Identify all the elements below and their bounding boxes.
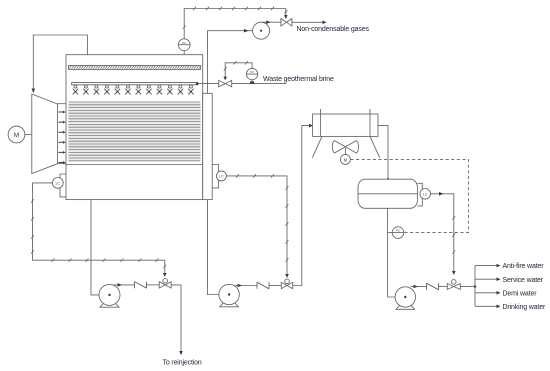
level gauge bracket drum [417, 183, 422, 206]
control valve V1 (NCG) [281, 19, 287, 26]
fan housing (trapezoid) [32, 94, 58, 174]
level gauge bracket left [60, 174, 66, 197]
svg-text:LC: LC [56, 181, 61, 185]
svg-text:Waste geothermal brine: Waste geothermal brine [263, 76, 334, 83]
instrument PC2 [246, 68, 257, 79]
signal: LC1 to V4 [226, 174, 288, 278]
instrument LC2 [52, 178, 63, 189]
signal: PC2 to V2 [224, 61, 252, 77]
strip flow arrows [59, 111, 66, 164]
compressor C1 [253, 22, 270, 39]
tube bundle [69, 102, 201, 161]
signal: PC1 to V1 [183, 7, 288, 39]
signal: LC3 to V5 [431, 192, 456, 275]
pump P1 [99, 284, 120, 305]
svg-text:Demi water: Demi water [503, 290, 538, 297]
motor M1 [8, 126, 25, 143]
control valve V5 [452, 280, 457, 285]
P2 discharge line [235, 285, 258, 287]
dashed signal: PC3 to M2 [350, 159, 468, 232]
signal: LC2 to V3 [31, 183, 167, 277]
svg-text:Non-condensable gases: Non-condensable gases [297, 26, 370, 33]
instrument LC1 [216, 171, 226, 181]
control valve V3 [163, 279, 168, 284]
pipe break symbol [427, 283, 439, 290]
drum outlet to pump P3 [388, 208, 396, 297]
svg-text:LC: LC [219, 174, 224, 178]
pipe break symbol [257, 282, 269, 289]
compressor discharge [262, 21, 281, 23]
svg-text:To reinjection: To reinjection [163, 360, 202, 367]
cooler legs [312, 136, 322, 157]
fan motor M2 [344, 148, 346, 154]
duct flow arrow [32, 89, 36, 94]
fan blades [332, 141, 358, 153]
motor shaft wire [25, 134, 32, 136]
branch: demi water [475, 292, 498, 294]
control valve V2 (brine) [219, 80, 226, 86]
cooler outlet to drum [378, 126, 388, 180]
distillate pipe to pump P2 [208, 200, 219, 295]
spray header [71, 82, 198, 84]
pipe to air cooler [293, 126, 311, 286]
air cooler E1 [313, 114, 378, 136]
spray nozzles [73, 85, 194, 94]
pipe break symbol [135, 282, 147, 289]
demister pad [69, 66, 201, 70]
branch: service water [475, 278, 498, 280]
svg-text:LC: LC [423, 192, 428, 196]
vapor pipe to compressor [208, 31, 253, 94]
pump P3 [395, 287, 415, 307]
P3 discharge line [411, 286, 427, 288]
flash drum D1 [358, 179, 417, 208]
reinjection line [171, 285, 181, 353]
NCG outlet line [292, 21, 324, 23]
svg-text:Service water: Service water [503, 277, 544, 284]
P1 discharge line [113, 284, 135, 286]
branch: drinking water [475, 305, 498, 307]
waste brine line [198, 83, 287, 85]
branch: anti-fire water [475, 265, 498, 267]
instrument PC3 [388, 232, 393, 234]
svg-text:M: M [14, 132, 19, 139]
recirculation duct [33, 35, 87, 92]
collection tray line [66, 164, 203, 166]
svg-text:Drinking water: Drinking water [503, 304, 546, 311]
pump P2 [219, 284, 239, 304]
vapor outlet box [203, 93, 213, 199]
evaporator vessel [66, 55, 203, 200]
control valve V4 [285, 279, 290, 284]
instrument PC1 [178, 39, 190, 51]
svg-text:M: M [344, 157, 348, 162]
brine drain pipe to pump P1 [91, 200, 99, 295]
level gauge bracket right [212, 165, 218, 188]
product manifold [460, 286, 475, 288]
instrument LC3 [420, 189, 431, 200]
svg-text:Anti-fire water: Anti-fire water [503, 263, 545, 270]
inlet strip [58, 103, 66, 105]
